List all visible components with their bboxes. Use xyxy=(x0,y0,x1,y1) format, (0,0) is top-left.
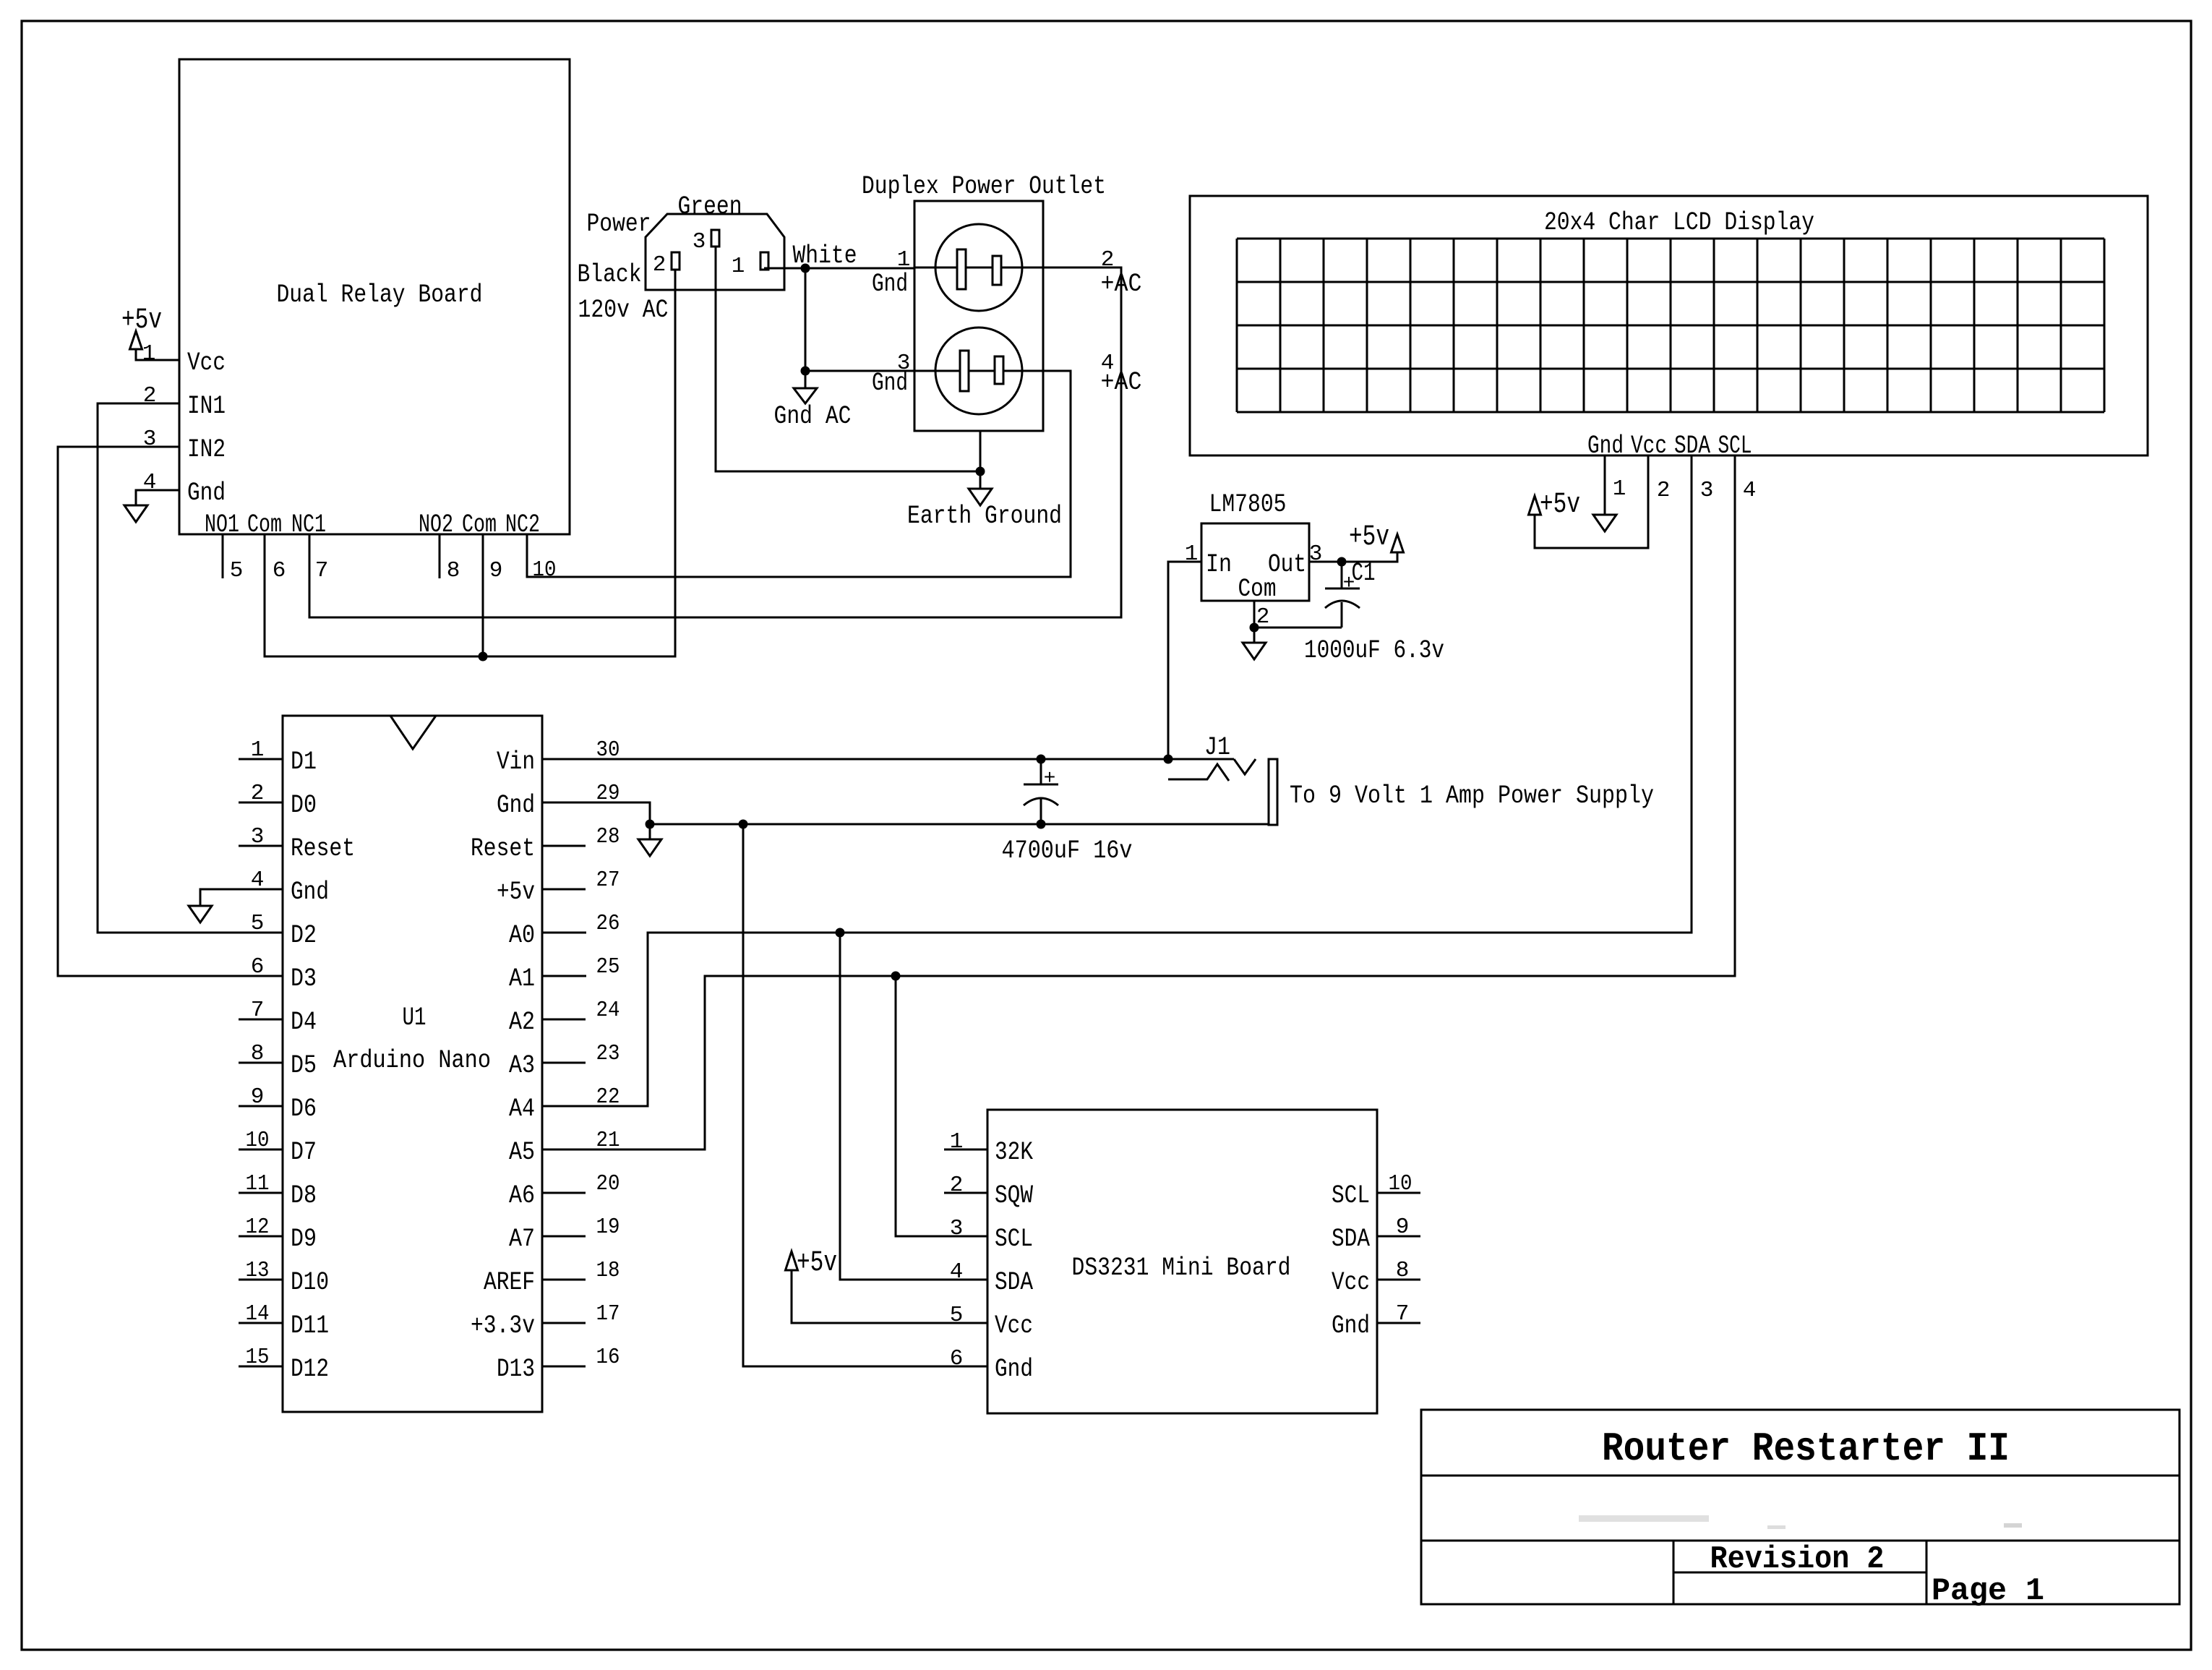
svg-text:4: 4 xyxy=(1743,478,1757,503)
junction relay Com1/Com2 xyxy=(479,652,488,661)
svg-text:A2: A2 xyxy=(509,1008,535,1037)
svg-text:In: In xyxy=(1206,550,1232,579)
svg-text:Earth Ground: Earth Ground xyxy=(907,502,1062,531)
capacitor C1 1000uF 6.3v xyxy=(1304,559,1444,665)
svg-text:7: 7 xyxy=(315,558,329,583)
pin 9 label xyxy=(489,558,503,583)
svg-text:20x4 Char LCD Display: 20x4 Char LCD Display xyxy=(1544,208,1814,237)
duplex power outlet J2 xyxy=(862,172,1142,431)
svg-text:SCL: SCL xyxy=(1332,1181,1370,1210)
wire power pin 3 Green to earth ground xyxy=(716,247,980,471)
junction Com node xyxy=(1250,623,1259,633)
ground symbol Gnd AC xyxy=(774,388,852,431)
junction SCL branch to DS3231 xyxy=(891,972,901,981)
svg-text:28: 28 xyxy=(596,824,620,849)
svg-text:D6: D6 xyxy=(291,1095,317,1123)
svg-text:1: 1 xyxy=(142,341,156,367)
svg-text:6: 6 xyxy=(273,558,286,583)
svg-text:20: 20 xyxy=(596,1171,620,1196)
wire Arduino pin 11 stub xyxy=(239,1192,283,1194)
svg-text:3: 3 xyxy=(143,427,157,452)
svg-text:3: 3 xyxy=(693,229,706,254)
wire Arduino pin 17 stub xyxy=(542,1322,586,1324)
svg-text:IN2: IN2 xyxy=(187,435,226,464)
wire relay IN2 pin 3 to Arduino D3 xyxy=(58,447,283,976)
wire Arduino pin 13 stub xyxy=(239,1279,283,1281)
pin 1 label xyxy=(142,341,156,367)
pin 9 label xyxy=(1396,1215,1410,1240)
svg-text:+: + xyxy=(1044,768,1056,790)
connector J1 barrel jack xyxy=(1168,733,1277,825)
node White label xyxy=(793,241,857,270)
svg-text:D7: D7 xyxy=(291,1138,317,1167)
pin 2 label xyxy=(143,383,157,408)
svg-text:5: 5 xyxy=(251,911,265,936)
svg-text:+5v: +5v xyxy=(121,304,162,337)
ground symbol Earth Ground xyxy=(907,489,1062,531)
wire relay NO1 pin 5 stub xyxy=(222,534,224,578)
pin 15 label xyxy=(246,1345,270,1370)
pin 4 label xyxy=(1743,478,1757,503)
wire DS3231 SDA pin 9 stub xyxy=(1377,1236,1420,1238)
pin 21 label xyxy=(596,1128,620,1153)
svg-text:4: 4 xyxy=(143,470,157,495)
wire DS3231 32K pin 1 stub xyxy=(944,1149,987,1151)
svg-text:10: 10 xyxy=(533,557,557,583)
svg-text:Gnd: Gnd xyxy=(1332,1311,1370,1340)
svg-text:C1: C1 xyxy=(1352,559,1376,588)
svg-text:Arduino Nano: Arduino Nano xyxy=(333,1046,491,1075)
svg-text:SDA: SDA xyxy=(1332,1225,1370,1254)
wire DS3231 Gnd pin 6 to ground rail xyxy=(743,824,987,1366)
wire Arduino pin 10 stub xyxy=(239,1149,283,1151)
svg-text:LM7805: LM7805 xyxy=(1209,490,1287,519)
wire relay NC2 pin 10 to outlet +AC pin 4 xyxy=(527,371,1071,577)
pin 7 label xyxy=(1396,1301,1410,1327)
pin 1 label xyxy=(1185,541,1199,567)
svg-text:6: 6 xyxy=(950,1346,964,1371)
svg-text:D4: D4 xyxy=(291,1008,317,1037)
svg-text:D9: D9 xyxy=(291,1225,317,1254)
+5v symbol at DS3231 Vcc xyxy=(786,1247,838,1280)
pin 8 label xyxy=(1396,1258,1410,1283)
svg-text:Gnd: Gnd xyxy=(872,270,908,299)
wire Arduino pin 1 stub xyxy=(239,758,283,761)
svg-text:23: 23 xyxy=(596,1041,620,1066)
svg-text:A3: A3 xyxy=(509,1051,535,1080)
pin 18 label xyxy=(596,1258,620,1283)
svg-text:Power: Power xyxy=(587,210,651,239)
pin 1 label xyxy=(251,737,265,763)
svg-text:D10: D10 xyxy=(291,1268,329,1297)
ground symbol at relay pin 4 xyxy=(124,505,147,522)
svg-text:27: 27 xyxy=(596,868,620,893)
ground symbol at Arduino pin 29 xyxy=(638,839,661,856)
wire Arduino Gnd pin 4 xyxy=(200,889,283,906)
svg-text:SQW: SQW xyxy=(995,1181,1033,1210)
wire White node to outlet Gnd pin 3 xyxy=(805,370,914,372)
wire Arduino pin 12 stub xyxy=(239,1236,283,1238)
svg-text:AREF: AREF xyxy=(484,1268,535,1297)
svg-text:D8: D8 xyxy=(291,1181,317,1210)
pin 14 label xyxy=(246,1301,270,1327)
power inlet connector P1 120v AC xyxy=(578,192,785,325)
pin 11 label xyxy=(246,1171,270,1196)
svg-text:Vcc: Vcc xyxy=(995,1311,1033,1340)
svg-text:3: 3 xyxy=(950,1216,964,1241)
wire Arduino pin 27 stub xyxy=(542,888,586,891)
pin 23 label xyxy=(596,1041,620,1066)
wire LM7805 Com pin 2 xyxy=(1253,601,1256,643)
wire Arduino pin 26 stub xyxy=(542,932,586,934)
wire Arduino pin 3 stub xyxy=(239,845,283,847)
svg-text:21: 21 xyxy=(596,1128,620,1153)
wire DS3231 Vcc pin 8 stub xyxy=(1377,1279,1420,1281)
+5v symbol at LCD Vcc xyxy=(1529,489,1581,521)
svg-text:+5v: +5v xyxy=(497,878,535,907)
wire relay Com2 pin 9 xyxy=(482,534,484,656)
svg-text:120v AC: 120v AC xyxy=(578,296,669,325)
pin 10 label xyxy=(246,1128,270,1153)
wire Arduino pin 24 stub xyxy=(542,1019,586,1021)
svg-text:A7: A7 xyxy=(509,1225,535,1254)
LCD module DS1 20x4 Char LCD Display xyxy=(1190,196,2148,461)
svg-text:Gnd: Gnd xyxy=(497,791,535,820)
title text Router Restarter II xyxy=(1602,1426,2010,1472)
svg-text:Com: Com xyxy=(462,510,497,539)
pin 16 label xyxy=(596,1345,620,1370)
pin 26 label xyxy=(596,911,620,936)
svg-text:Vin: Vin xyxy=(497,748,535,776)
wire DS3231 SCL pin 10 stub xyxy=(1377,1192,1420,1194)
voltage regulator LM7805 xyxy=(1201,490,1309,604)
svg-text:Gnd AC: Gnd AC xyxy=(774,402,852,431)
pin 2 label xyxy=(251,781,265,806)
wire LCD Vcc pin 2 to +5v xyxy=(1535,455,1648,548)
svg-text:Page 1: Page 1 xyxy=(1932,1573,2044,1609)
pin 4 label xyxy=(251,868,265,893)
svg-text:6: 6 xyxy=(251,954,265,980)
pin 6 label xyxy=(251,954,265,980)
pin 6 label xyxy=(950,1346,964,1371)
pin 3 label xyxy=(950,1216,964,1241)
svg-text:D13: D13 xyxy=(497,1355,535,1384)
wire DS3231 Vcc pin 5 to +5v xyxy=(792,1270,987,1323)
svg-text:A4: A4 xyxy=(509,1095,535,1123)
pin 3 label xyxy=(143,427,157,452)
pin 30 label xyxy=(596,737,620,763)
svg-text:+5v: +5v xyxy=(797,1247,837,1280)
microcontroller U1 Arduino Nano xyxy=(283,716,542,1412)
pin 7 label xyxy=(251,998,265,1023)
svg-text:1: 1 xyxy=(950,1129,964,1155)
pin 5 label xyxy=(230,558,244,583)
svg-text:Gnd: Gnd xyxy=(187,479,226,508)
svg-text:22: 22 xyxy=(596,1084,620,1110)
svg-text:Revision 2: Revision 2 xyxy=(1710,1541,1885,1577)
svg-text:+5v: +5v xyxy=(1349,521,1389,554)
svg-text:D11: D11 xyxy=(291,1311,329,1340)
svg-text:SDA: SDA xyxy=(995,1268,1033,1297)
wire Arduino pin 9 stub xyxy=(239,1105,283,1108)
wire Arduino pin 15 stub xyxy=(239,1366,283,1368)
wire outlet earth ground xyxy=(979,431,982,471)
svg-text:Reset: Reset xyxy=(471,834,535,863)
pin 3 label xyxy=(1700,478,1714,503)
svg-text:D0: D0 xyxy=(291,791,317,820)
pin 10 label xyxy=(533,557,557,583)
wire relay NO2 pin 8 stub xyxy=(439,534,441,578)
wire stub to ground symbol xyxy=(649,824,651,839)
svg-text:1000uF 6.3v: 1000uF 6.3v xyxy=(1304,636,1444,665)
junction SDA branch to DS3231 xyxy=(836,928,845,938)
wire Arduino pin 7 stub xyxy=(239,1019,283,1021)
svg-text:+5v: +5v xyxy=(1540,489,1580,521)
svg-text:2: 2 xyxy=(143,383,157,408)
wire earth node down xyxy=(979,471,982,489)
wire ground rail to J1 sleeve xyxy=(650,823,1269,826)
svg-text:Dual Relay Board: Dual Relay Board xyxy=(277,281,483,309)
svg-text:Gnd: Gnd xyxy=(995,1355,1033,1384)
pin 6 label xyxy=(273,558,286,583)
pin 7 label xyxy=(315,558,329,583)
pin 4 label xyxy=(950,1259,964,1285)
pin 2 label xyxy=(1657,478,1671,503)
wire Arduino pin 16 stub xyxy=(542,1366,586,1368)
svg-text:D12: D12 xyxy=(291,1355,329,1384)
wire DS3231 SDA pin 4 to SDA net xyxy=(840,933,987,1280)
pin 12 label xyxy=(246,1215,270,1240)
pin 25 label xyxy=(596,954,620,980)
junction White lower node xyxy=(801,367,810,376)
svg-text:5: 5 xyxy=(950,1303,964,1328)
svg-text:16: 16 xyxy=(596,1345,620,1370)
junction Gnd pin 29 node xyxy=(646,820,655,829)
svg-text:Router Restarter II: Router Restarter II xyxy=(1602,1426,2010,1472)
svg-text:NO2: NO2 xyxy=(419,510,453,539)
pin 3 label xyxy=(1309,541,1323,567)
svg-text:DS3231 Mini Board: DS3231 Mini Board xyxy=(1072,1254,1291,1283)
svg-text:U1: U1 xyxy=(403,1003,426,1032)
svg-text:5: 5 xyxy=(230,558,244,583)
svg-text:1: 1 xyxy=(897,247,911,273)
wire LM7805 Out pin 3 to +5v xyxy=(1309,552,1397,562)
wire Arduino pin 20 stub xyxy=(542,1192,586,1194)
svg-text:NC2: NC2 xyxy=(505,510,540,539)
svg-text:J1: J1 xyxy=(1204,733,1230,762)
pin 27 label xyxy=(596,868,620,893)
svg-text:8: 8 xyxy=(447,558,460,583)
title block xyxy=(1421,1410,2179,1604)
+5v symbol at relay Vcc xyxy=(121,304,162,349)
svg-text:To 9 Volt 1 Amp Power Supply: To 9 Volt 1 Amp Power Supply xyxy=(1290,782,1654,810)
svg-text:+3.3v: +3.3v xyxy=(471,1311,535,1340)
svg-text:D3: D3 xyxy=(291,964,317,993)
ground symbol at Arduino pin 4 xyxy=(189,906,212,922)
pin 20 label xyxy=(596,1171,620,1196)
pin 29 label xyxy=(596,781,620,806)
wire to Gnd AC symbol xyxy=(805,371,807,388)
svg-text:2: 2 xyxy=(1101,247,1115,273)
svg-text:32K: 32K xyxy=(995,1138,1033,1167)
svg-text:D5: D5 xyxy=(291,1051,317,1080)
pin 2 label xyxy=(1256,604,1270,630)
junction Vin to LM7805 In xyxy=(1164,755,1173,764)
junction ground rail to DS3231 Gnd xyxy=(739,820,748,829)
svg-text:Vcc: Vcc xyxy=(187,348,226,377)
svg-text:2: 2 xyxy=(653,252,666,278)
pin 28 label xyxy=(596,824,620,849)
capacitor C2 4700uF 16v xyxy=(1002,759,1133,865)
wire DS3231 Gnd pin 7 stub xyxy=(1377,1322,1420,1324)
junction Out to C1 xyxy=(1337,557,1347,567)
svg-text:3: 3 xyxy=(1700,478,1714,503)
pin 9 label xyxy=(251,1084,265,1110)
svg-text:1: 1 xyxy=(1185,541,1199,567)
wire Arduino pin 14 stub xyxy=(239,1322,283,1324)
pin 19 label xyxy=(596,1215,620,1240)
wire DS3231 SQW pin 2 stub xyxy=(944,1192,987,1194)
svg-text:D2: D2 xyxy=(291,921,317,950)
wire LCD SDA pin 3 to Arduino A4 (SDA net) xyxy=(542,455,1692,1106)
svg-text:24: 24 xyxy=(596,998,620,1023)
svg-text:Green: Green xyxy=(678,192,742,221)
pin 13 label xyxy=(246,1258,270,1283)
svg-text:Com: Com xyxy=(1238,575,1277,604)
wire C1 to Com node xyxy=(1254,627,1342,629)
pin 17 label xyxy=(596,1301,620,1327)
pin 8 label xyxy=(251,1041,265,1066)
svg-text:2: 2 xyxy=(1657,478,1671,503)
pin 22 label xyxy=(596,1084,620,1110)
pin 4 label xyxy=(143,470,157,495)
svg-text:3: 3 xyxy=(1309,541,1323,567)
svg-text:+AC: +AC xyxy=(1101,270,1142,299)
pin 5 label xyxy=(251,911,265,936)
svg-text:SCL: SCL xyxy=(995,1225,1033,1254)
svg-text:Reset: Reset xyxy=(291,834,355,863)
svg-text:9: 9 xyxy=(489,558,503,583)
RTC module U2 DS3231 Mini Board xyxy=(987,1110,1377,1413)
revision text xyxy=(1710,1541,1885,1577)
wire Arduino pin 19 stub xyxy=(542,1236,586,1238)
wire power pin 1 White to outlet Gnd pin 1 xyxy=(764,267,914,270)
wire LCD SCL pin 4 to Arduino A5 (SCL net) xyxy=(542,455,1735,1149)
relay module K1 Dual Relay Board xyxy=(179,59,570,539)
svg-text:4: 4 xyxy=(950,1259,964,1285)
svg-text:D1: D1 xyxy=(291,748,317,776)
label To 9 Volt 1 Amp Power Supply xyxy=(1290,782,1654,810)
svg-text:Gnd: Gnd xyxy=(872,369,908,398)
wire Arduino pin 25 stub xyxy=(542,975,586,977)
pin 3 label xyxy=(251,824,265,849)
wire Arduino Gnd pin 29 xyxy=(542,802,650,824)
wire relay NC1 pin 7 to outlet +AC pin 2 xyxy=(309,267,1121,617)
svg-text:2: 2 xyxy=(950,1173,964,1198)
svg-text:A1: A1 xyxy=(509,964,535,993)
svg-text:IN1: IN1 xyxy=(187,392,226,421)
pin 5 label xyxy=(950,1303,964,1328)
svg-text:Black: Black xyxy=(578,260,642,289)
svg-text:A5: A5 xyxy=(509,1138,535,1167)
wire LM7805 In pin 1 to Vin node xyxy=(1168,562,1201,759)
junction White node xyxy=(801,264,810,273)
pin 24 label xyxy=(596,998,620,1023)
svg-text:Gnd: Gnd xyxy=(291,878,329,907)
ground symbol at LCD pin 1 xyxy=(1593,515,1616,531)
pin 10 label xyxy=(1389,1171,1412,1196)
wire relay Com1 pin 6 to power Black xyxy=(265,270,675,656)
svg-text:18: 18 xyxy=(596,1258,620,1283)
pin 2 label xyxy=(950,1173,964,1198)
wire DS3231 SCL pin 3 to SCL net xyxy=(896,976,987,1236)
svg-text:26: 26 xyxy=(596,911,620,936)
ground symbol at LM7805 Com xyxy=(1243,643,1266,659)
wire relay Gnd pin 4 xyxy=(136,490,179,505)
wire Arduino pin 2 stub xyxy=(239,802,283,804)
wire Arduino pin 8 stub xyxy=(239,1062,283,1064)
svg-text:A0: A0 xyxy=(509,921,535,950)
svg-text:4700uF 16v: 4700uF 16v xyxy=(1002,836,1133,865)
wire Vin pin 30 to J1 xyxy=(542,758,1234,761)
junction Vin to 4700uF cap xyxy=(1037,755,1046,764)
svg-text:1: 1 xyxy=(732,254,745,279)
+5v symbol at LM7805 Out xyxy=(1349,521,1404,554)
wire Arduino pin 23 stub xyxy=(542,1062,586,1064)
pin 1 label xyxy=(950,1129,964,1155)
wire LCD Gnd pin 1 xyxy=(1604,455,1606,515)
pin 8 label xyxy=(447,558,460,583)
svg-text:17: 17 xyxy=(596,1301,620,1327)
svg-text:+AC: +AC xyxy=(1101,368,1142,397)
svg-text:Vcc: Vcc xyxy=(1332,1268,1370,1297)
wire White node down xyxy=(805,268,807,371)
wire Arduino pin 18 stub xyxy=(542,1279,586,1281)
svg-text:A6: A6 xyxy=(509,1181,535,1210)
wire relay Vcc pin 1 to +5v xyxy=(136,349,179,360)
svg-text:Duplex Power Outlet: Duplex Power Outlet xyxy=(862,172,1106,201)
page text xyxy=(1932,1573,2044,1609)
pin 1 label xyxy=(1613,476,1626,502)
svg-text:19: 19 xyxy=(596,1215,620,1240)
wire relay IN1 pin 2 to Arduino D2 xyxy=(98,403,283,933)
svg-text:1: 1 xyxy=(1613,476,1626,502)
junction ground rail to 4700uF cap xyxy=(1037,820,1046,829)
wire Arduino pin 28 stub xyxy=(542,845,586,847)
junction earth ground node xyxy=(976,467,985,476)
svg-text:25: 25 xyxy=(596,954,620,980)
